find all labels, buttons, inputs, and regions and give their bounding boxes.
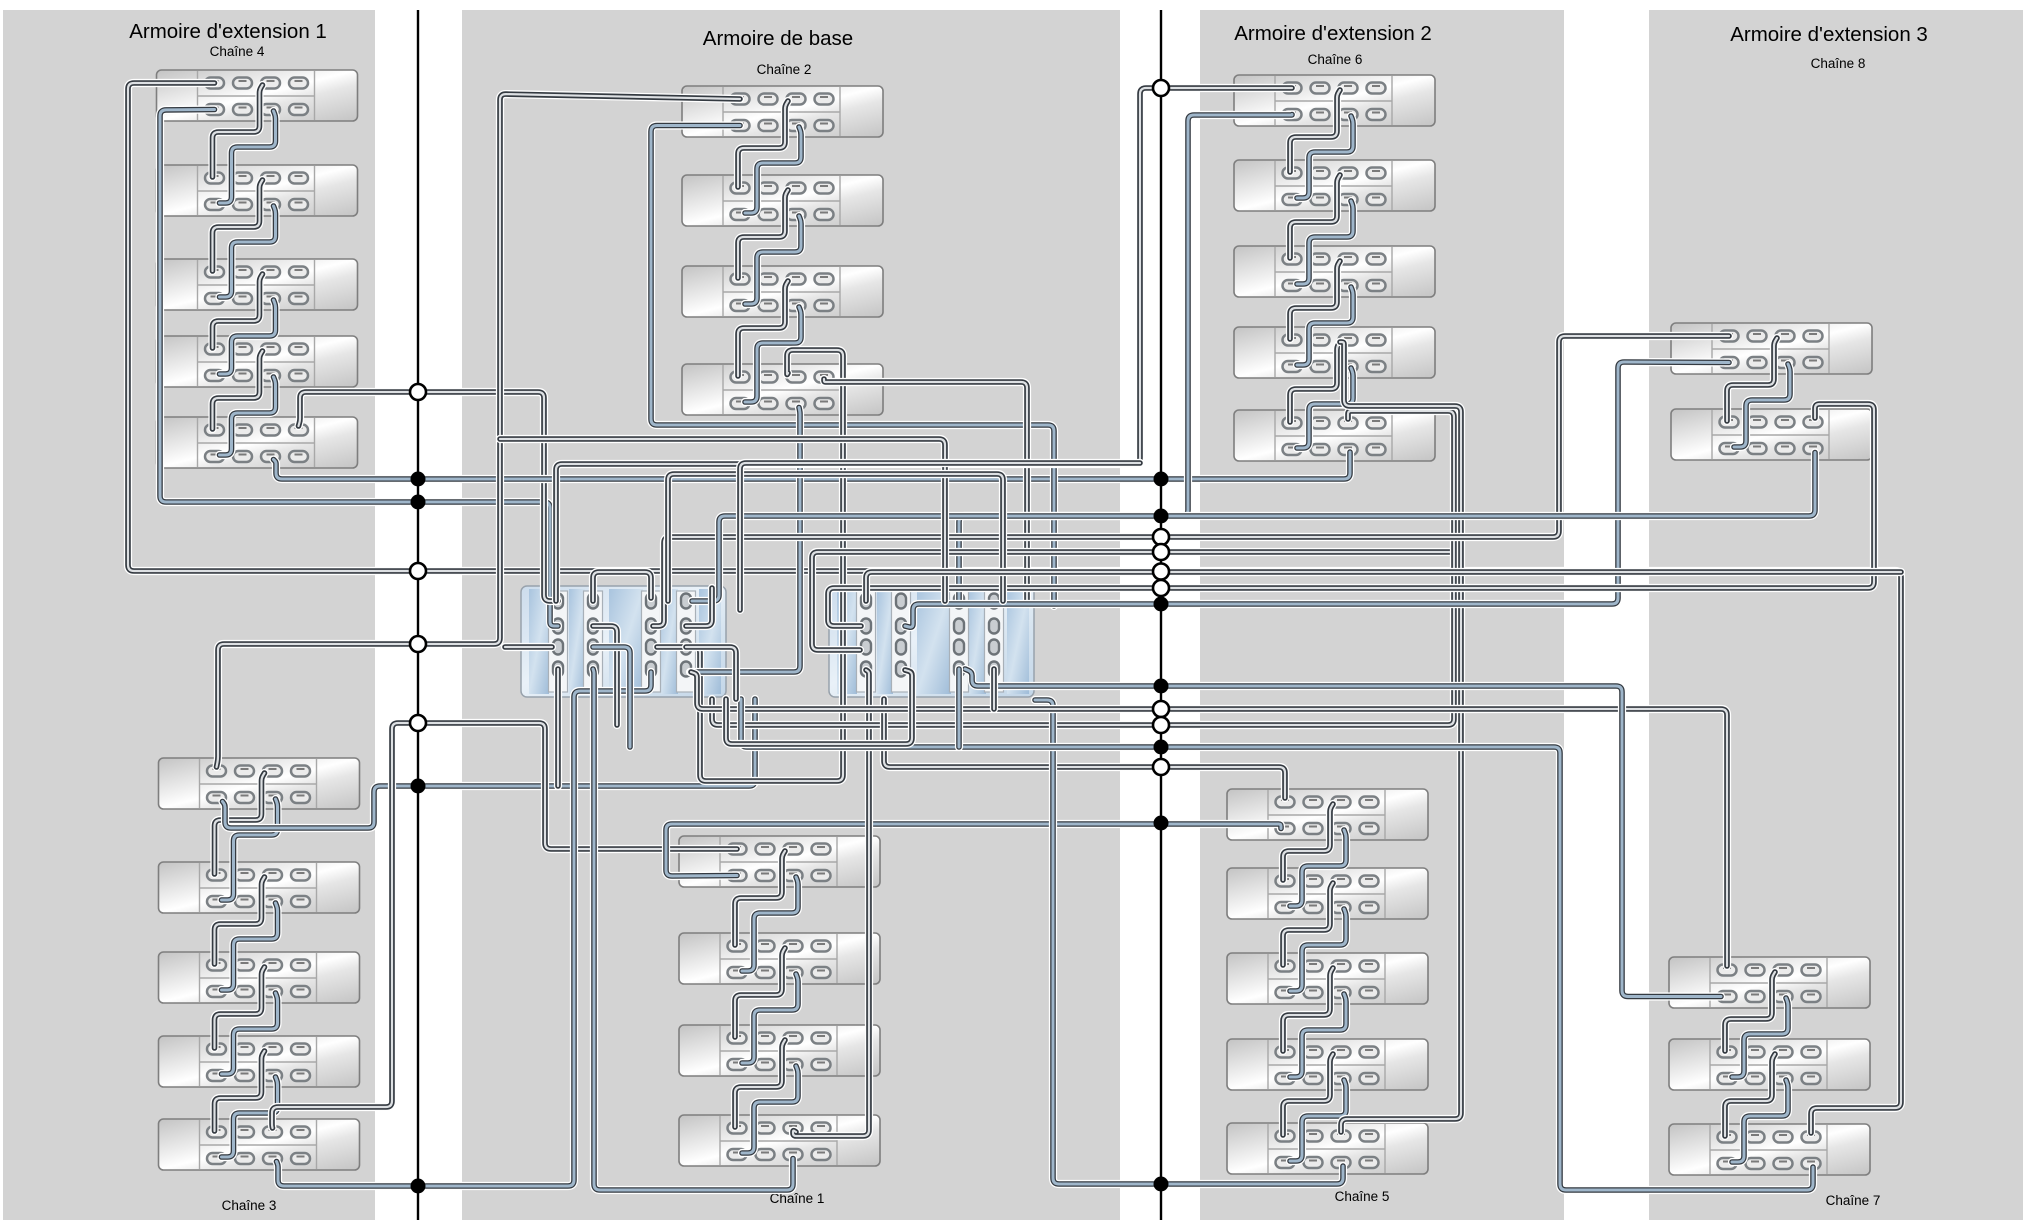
wire ch3-sh5-r1p3 run y723 to ch1-sh1-r1p1	[272, 723, 737, 1128]
wire head1-s2p1 elbow to s3p1	[593, 572, 651, 601]
junction open line1 y571	[410, 563, 426, 579]
wire ch3 shelf2-r1p3 to shelf3-r1p1	[215, 877, 265, 964]
wire ch5 shelf3-r1p3 to shelf4-r1p1	[1283, 968, 1333, 1051]
wire ch5 shelf2-r1p3 to shelf3-r1p1	[1283, 883, 1333, 965]
junction filled line2 y823	[1154, 816, 1169, 831]
svg-text:Chaîne 3: Chaîne 3	[222, 1198, 277, 1213]
wire ch1 shelf2-r1p3 to shelf3-r1p1	[735, 948, 785, 1037]
disk shelf ch5 shelf 2	[1227, 868, 1428, 919]
wire ch2 shelf3-r1p3 to shelf4-r1p1	[738, 281, 788, 376]
wire ch6 shelf2-r2p3 to shelf3-r2p1	[1297, 201, 1353, 284]
wire ch3 shelf2-r2p3 to shelf3-r2p1	[222, 903, 278, 990]
junction open line2 y537	[1153, 529, 1169, 545]
wire ch3 shelf1-r2p3 to shelf2-r2p1	[222, 799, 278, 900]
svg-text:Armoire d'extension 3: Armoire d'extension 3	[1730, 23, 1928, 46]
disk shelf ch3 shelf 1	[159, 758, 360, 809]
wire ch6 shelf3-r1p3 to shelf4-r1p1	[1290, 261, 1340, 339]
junction filled line2 y516	[1154, 509, 1169, 524]
wire ch5-sh5-r2p3 run y1184 to head2	[1035, 700, 1343, 1184]
wire ch4-sh5-r1p4 run y392 to head1	[299, 392, 559, 601]
wire head1-s1p4 stub down	[554, 669, 562, 786]
wire head1-s4p3 stub right	[686, 647, 736, 699]
junction open line2 y571	[1153, 564, 1169, 580]
junction open line2 y588	[1153, 580, 1169, 596]
wire ch4 shelf2-r2p3 to shelf3-r2p1	[220, 206, 276, 297]
svg-text:Chaîne 6: Chaîne 6	[1308, 52, 1363, 67]
wire ch3 shelf1-r1p3 to shelf2-r1p1	[215, 773, 265, 874]
wire ch2 shelf1-r1p3 to shelf2-r1p1	[738, 101, 788, 187]
wire ch4-sh1-r1p1 long run y571 to ch7-sh3-r1p4	[128, 83, 1901, 1133]
junction filled line2 y686	[1154, 679, 1169, 694]
wire ch8-sh2-r2p4 run y516 to head1	[692, 453, 1815, 602]
wire ch4 shelf3-r1p3 to shelf4-r1p1	[213, 274, 263, 348]
wire ch4 shelf1-r2p3 to shelf2-r2p1	[220, 111, 276, 203]
disk shelf ch6 shelf 3	[1234, 246, 1435, 297]
disk shelf ch6 shelf 4	[1234, 327, 1435, 378]
wire ch4 shelf4-r2p3 to shelf5-r2p1	[220, 377, 276, 455]
wire run y439 to head2 top	[500, 439, 945, 601]
wire ch6-sh5-r1p3 run y725 to head1	[712, 411, 1454, 725]
disk shelf ch5 shelf 5	[1227, 1123, 1428, 1174]
junction open line2 y552	[1153, 544, 1169, 560]
wire ch7 shelf1-r1p3 to shelf2-r1p1	[1725, 972, 1775, 1051]
svg-text:Chaîne 8: Chaîne 8	[1811, 56, 1866, 71]
wire ch2-sh4-r1p3 run x843 to y781	[657, 350, 843, 781]
wire ch8 shelf1-r1p3 to shelf2-r1p1	[1727, 338, 1777, 421]
disk shelf ch7 shelf 2	[1669, 1039, 1870, 1090]
disk shelf ch6 shelf 5	[1234, 410, 1435, 461]
wire ch4 shelf2-r1p3 to shelf3-r1p1	[213, 180, 263, 271]
rack boundary line 1	[417, 10, 419, 1220]
wire ch7-sh3-r2p4 run y747 to head1	[741, 699, 1813, 1190]
svg-text:Chaîne 4: Chaîne 4	[210, 44, 265, 59]
wire head1-s4p2 stub	[686, 588, 712, 626]
junction open line2 y709	[1153, 701, 1169, 717]
svg-text:Armoire d'extension 1: Armoire d'extension 1	[129, 20, 327, 43]
disk shelf ch4 shelf 3	[157, 259, 358, 310]
disk shelf ch5 shelf 1	[1227, 789, 1428, 840]
wire ch6-sh1-r2p1 run x1188 y516 to head2	[959, 115, 1292, 602]
junction open line2 y88	[1153, 80, 1169, 96]
disk shelf ch2 shelf 1	[682, 86, 883, 137]
wire ch8 shelf1-r2p3 to shelf2-r2p1	[1734, 364, 1790, 447]
wire run y474 between heads	[668, 474, 1003, 601]
wire ch2-sh4-r1p4 run x1027 to head2 top	[824, 379, 1027, 601]
junction filled line2 y1184	[1154, 1177, 1169, 1192]
junction open line1 y644	[410, 636, 426, 652]
wire ch8-sh1-r1p1 run y537 to head1	[653, 336, 1729, 626]
wire ch3-sh1-r1p1 run y644 x500 to ch2-sh1-r1p1	[217, 94, 741, 767]
junction filled line1 y479	[411, 472, 426, 487]
wire ch3 shelf4-r2p3 to shelf5-r2p1	[222, 1077, 278, 1157]
svg-text:Armoire d'extension 2: Armoire d'extension 2	[1234, 22, 1432, 45]
wire ch4-sh1-r2p1 run y502 to head1	[160, 110, 558, 627]
disk shelf ch3 shelf 3	[159, 952, 360, 1003]
wire ch1 shelf3-r2p3 to shelf4-r2p1	[742, 1066, 798, 1153]
disk shelf ch3 shelf 2	[159, 862, 360, 913]
wire ch4 shelf4-r1p3 to shelf5-r1p1	[213, 351, 263, 429]
wire run y744 to head2-s2p4	[726, 670, 912, 744]
junction filled line2 y604	[1154, 597, 1169, 612]
disk shelf ch1 shelf 1	[679, 836, 880, 887]
disk shelf ch6 shelf 1	[1234, 75, 1435, 126]
wire ch8-sh1-r2p1 run y604 to head2	[905, 362, 1729, 627]
disk shelf ch5 shelf 3	[1227, 953, 1428, 1004]
wire ch6 shelf3-r2p3 to shelf4-r2p1	[1297, 287, 1353, 365]
junction filled line1 y502	[411, 495, 426, 510]
wire ch3 shelf3-r2p3 to shelf4-r2p1	[222, 993, 278, 1074]
disk shelf ch4 shelf 1	[157, 70, 358, 121]
wire ch6 shelf2-r1p3 to shelf3-r1p1	[1290, 175, 1340, 258]
controller head 2	[829, 586, 1034, 697]
wire head2-s3p4 stub down	[955, 669, 963, 747]
wire ch4-sh5-r2p3 long run y479 to ch6-sh5-r2p3	[274, 452, 1351, 479]
svg-text:Chaîne 2: Chaîne 2	[757, 62, 812, 77]
junction filled line2 y479	[1154, 472, 1169, 487]
wire head1-s2p3 stub	[593, 647, 630, 747]
disk shelf ch7 shelf 1	[1669, 957, 1870, 1008]
wire ch1 shelf3-r1p3 to shelf4-r1p1	[735, 1040, 785, 1127]
wire ch2 shelf1-r2p3 to shelf2-r2p1	[745, 127, 801, 213]
controller head 1	[521, 586, 726, 697]
disk shelf ch1 shelf 2	[679, 933, 880, 984]
cabinet panel extension 3	[1649, 10, 2023, 1220]
wire ch6 shelf1-r2p3 to shelf2-r2p1	[1297, 116, 1353, 198]
disk shelf ch2 shelf 4	[682, 364, 883, 415]
wire ch2 shelf2-r1p3 to shelf3-r1p1	[738, 190, 788, 278]
wire ch1 shelf2-r2p3 to shelf3-r2p1	[742, 974, 798, 1063]
disk shelf ch8 shelf 2	[1671, 409, 1872, 460]
wire ch1-sh4-r1p3 run x869 to head2-s1p4	[793, 670, 869, 1136]
junction filled line1 y1186	[411, 1179, 426, 1194]
junction filled line2 y747	[1154, 740, 1169, 755]
wire ch5 shelf1-r2p3 to shelf2-r2p1	[1290, 830, 1346, 906]
disk shelf ch3 shelf 5	[159, 1119, 360, 1170]
disk shelf ch2 shelf 2	[682, 175, 883, 226]
wire ch1-sh1-r2p1 run y823 to ch5-sh1-r2p1	[666, 824, 1281, 876]
junction open line2 y725	[1153, 717, 1169, 733]
wire head2-s4p4 stub down	[990, 669, 998, 709]
junction open line2 y767	[1153, 759, 1169, 775]
wire ch3 shelf4-r1p3 to shelf5-r1p1	[215, 1051, 265, 1131]
wire run y463 branch	[740, 463, 1140, 610]
wire ch6 shelf4-r1p3 to shelf5-r1p1	[1290, 342, 1340, 422]
svg-text:Armoire de base: Armoire de base	[703, 27, 853, 50]
wire ch5 shelf4-r1p3 to shelf5-r1p1	[1283, 1054, 1333, 1135]
wire ch7-sh1-r1p1 run y709 to head1	[691, 672, 1727, 966]
wire ch3-sh1-r2p1 run y786 to head1	[223, 699, 756, 828]
wire ch3-sh5-r2p3 run y1186 to head1	[277, 672, 652, 1186]
wire ch1-sh4-r2p3 run y1190 to head1-s2p4	[593, 669, 793, 1190]
wire ch5 shelf2-r2p3 to shelf3-r2p1	[1290, 909, 1346, 991]
wire ch5 shelf4-r2p3 to shelf5-r2p1	[1290, 1080, 1346, 1161]
wire ch3 shelf3-r1p3 to shelf4-r1p1	[215, 967, 265, 1048]
disk shelf ch1 shelf 3	[679, 1025, 880, 1076]
cabinet panel extension 1	[3, 10, 375, 1220]
wire ch2 shelf2-r2p3 to shelf3-r2p1	[745, 216, 801, 304]
wire ch1 shelf1-r1p3 to shelf2-r1p1	[735, 851, 785, 945]
wire ch7 shelf2-r1p3 to shelf3-r1p1	[1725, 1054, 1775, 1136]
wire ch8-sh2-r1p4 run y588 to head2	[828, 404, 1874, 626]
wire ch6 shelf4-r2p3 to shelf5-r2p1	[1297, 368, 1353, 448]
junction filled line1 y786	[411, 779, 426, 794]
wire head2-s1p1 run y572 to x1901 (ch7 feeder)	[866, 572, 1901, 601]
junction open line1 y723	[410, 715, 426, 731]
rack boundary line 2	[1160, 10, 1162, 1220]
wire ch7-sh1-r2p1 run y686 to head2	[965, 669, 1721, 997]
wire ch6-sh4-r1p3 run x1461 to ch5-sh5-r1p3	[1340, 342, 1461, 1132]
wire ch6-sh1-r1p1 run x1140 y464 to head1	[556, 88, 1292, 601]
junction open line1 y392	[410, 384, 426, 400]
disk shelf ch6 shelf 2	[1234, 160, 1435, 211]
disk shelf ch7 shelf 3	[1669, 1124, 1870, 1175]
wire ch7 shelf2-r2p3 to shelf3-r2p1	[1732, 1080, 1788, 1162]
wire ch7 shelf1-r2p3 to shelf2-r2p1	[1732, 998, 1788, 1077]
disk shelf ch4 shelf 2	[157, 165, 358, 216]
wire ch5 shelf1-r1p3 to shelf2-r1p1	[1283, 804, 1333, 880]
disk shelf ch2 shelf 3	[682, 266, 883, 317]
wire ch2 shelf3-r2p3 to shelf4-r2p1	[745, 307, 801, 402]
wire ch4 shelf3-r2p3 to shelf4-r2p1	[220, 300, 276, 374]
cabinet panel base	[462, 10, 1120, 1220]
wire ch2-sh4-r2p3 run to head1-s4p4	[690, 408, 800, 673]
wire head1-s1p3 stub left	[505, 643, 552, 651]
disk shelf ch1 shelf 4	[679, 1115, 880, 1166]
wire ch6 shelf1-r1p3 to shelf2-r1p1	[1290, 90, 1340, 172]
wire head2-s1p3 run y552	[812, 552, 1454, 650]
svg-text:Chaîne 5: Chaîne 5	[1335, 1189, 1390, 1204]
disk shelf ch5 shelf 4	[1227, 1039, 1428, 1090]
disk shelf ch8 shelf 1	[1671, 323, 1872, 374]
disk shelf ch4 shelf 4	[157, 336, 358, 387]
wire ch4 shelf1-r1p3 to shelf2-r1p1	[213, 85, 263, 177]
disk shelf ch4 shelf 5	[157, 417, 358, 468]
wire head1-s2p2 stub	[593, 626, 617, 725]
svg-text:Chaîne 7: Chaîne 7	[1826, 1193, 1881, 1208]
wire ch1 shelf1-r2p3 to shelf2-r2p1	[742, 877, 798, 971]
cabinet panel extension 2	[1200, 10, 1564, 1220]
wire ch5-sh1-r1p1 run y767 to head2	[884, 699, 1285, 798]
wire ch5 shelf3-r2p3 to shelf4-r2p1	[1290, 994, 1346, 1077]
disk shelf ch3 shelf 4	[159, 1036, 360, 1087]
wire ch2-sh1-r2p1 run y425 to head2	[651, 126, 1054, 607]
